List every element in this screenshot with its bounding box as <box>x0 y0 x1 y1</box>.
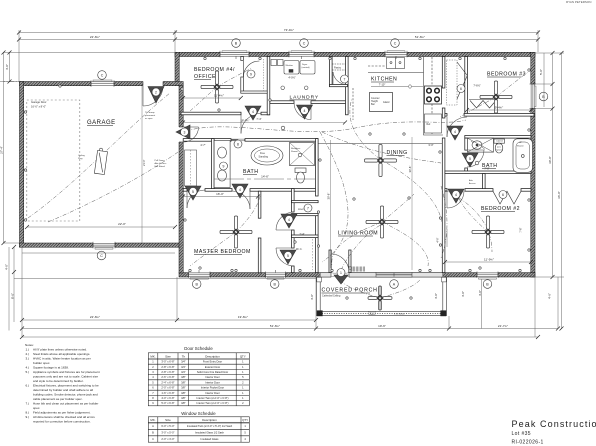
fan master <box>220 216 252 248</box>
marker 7 pantry <box>341 75 349 83</box>
svg-text:1.): 1.) <box>26 348 30 352</box>
laundry washer dryer <box>271 60 315 90</box>
svg-text:Dryer: Dryer <box>302 63 308 66</box>
svg-text:4'-0": 4'-0" <box>5 264 9 270</box>
porch posts <box>317 310 323 316</box>
svg-text:6.): 6.) <box>26 384 30 388</box>
svg-text:BEDROOM #2: BEDROOM #2 <box>481 206 520 212</box>
svg-text:19'-6¼": 19'-6¼" <box>238 315 248 319</box>
fan porch <box>368 286 392 310</box>
notes block <box>25 343 100 424</box>
door 4 swing (office) <box>241 114 261 134</box>
interior dim lines <box>183 196 258 198</box>
wall: bath/hall right <box>316 139 319 196</box>
svg-text:21'-7¾": 21'-7¾" <box>498 324 508 328</box>
svg-text:3.): 3.) <box>26 357 30 361</box>
svg-text:building codes. Smoke detector: building codes. Smoke detector, phone ja… <box>33 393 98 397</box>
svg-text:8.): 8.) <box>26 411 30 415</box>
svg-text:7'-6½": 7'-6½" <box>473 84 480 88</box>
svg-text:4'-0": 4'-0" <box>461 291 465 297</box>
svg-text:1'-6" x 6'-8": 1'-6" x 6'-8" <box>161 391 174 395</box>
marker 5 WIC <box>280 250 296 264</box>
door 7 pantry swing <box>333 72 347 85</box>
svg-text:Washer: Washer <box>286 64 294 67</box>
svg-text:C: C <box>100 254 103 258</box>
marker 5 bath right <box>462 153 478 167</box>
upper cabinet dashed <box>431 57 433 134</box>
door number markers (pennant + circle) <box>148 70 507 284</box>
svg-text:2: 2 <box>242 380 244 384</box>
svg-text:OFFICE: OFFICE <box>194 74 216 80</box>
fire door opening in house left wall (door 3) <box>179 127 184 142</box>
svg-text:6: 6 <box>460 87 462 91</box>
svg-text:4'-7": 4'-7" <box>200 143 205 147</box>
svg-text:4: 4 <box>288 218 290 222</box>
svg-text:73'-9¾": 73'-9¾" <box>284 28 294 32</box>
wall outlets <box>24 57 530 299</box>
svg-text:4'-0": 4'-0" <box>436 237 440 242</box>
svg-text:3/8": 3/8" <box>181 386 186 390</box>
svg-text:Ref.: Ref. <box>427 123 432 126</box>
exterior walls <box>20 52 536 277</box>
garage top window C <box>91 80 114 86</box>
svg-text:Interior Twin (2-2'-6" x 6'-8": Interior Twin (2-2'-6" x 6'-8") <box>197 401 229 405</box>
svg-text:1: 1 <box>242 360 244 364</box>
svg-text:3'-0" x 5'-0": 3'-0" x 5'-0" <box>161 431 174 435</box>
svg-text:7'-4": 7'-4" <box>256 117 261 121</box>
svg-text:Front Entry Door: Front Entry Door <box>203 360 222 364</box>
svg-text:2'-0" x 3'-0": 2'-0" x 3'-0" <box>161 437 174 441</box>
svg-text:11'-4¾": 11'-4¾" <box>214 94 224 98</box>
svg-text:Size: Size <box>165 354 171 358</box>
svg-text:Insulated Twin (2-3'-0" x 5'-0: Insulated Twin (2-3'-0" x 5'-0") 1/2 Sas… <box>187 424 233 428</box>
marker 3 <box>176 125 190 139</box>
svg-text:1: 1 <box>340 271 342 275</box>
svg-text:7: 7 <box>344 77 346 81</box>
svg-text:RI-022026-1: RI-022026-1 <box>512 440 544 446</box>
eave line below house <box>14 277 316 279</box>
dimension lines <box>0 30 564 337</box>
svg-text:5: 5 <box>244 431 246 435</box>
bedroom2 closet bifold <box>493 191 521 204</box>
svg-text:BEDROOM #3: BEDROOM #3 <box>487 72 526 78</box>
svg-text:Plug: Plug <box>78 158 83 160</box>
wall: garage top <box>20 82 184 86</box>
svg-text:determined by builder and shal: determined by builder and shall adhere t… <box>33 388 93 392</box>
svg-text:3'-0" x 6'-8": 3'-0" x 6'-8" <box>161 360 174 364</box>
wall: house left upper <box>175 52 179 85</box>
svg-text:QTY: QTY <box>240 354 246 358</box>
wall: bath right left side <box>465 138 468 150</box>
marker 4 bedroom2 <box>448 189 464 203</box>
svg-text:3/4": 3/4" <box>181 365 186 369</box>
door 5 swing (WIC) <box>276 248 294 266</box>
svg-text:Square footage is at 1638.: Square footage is at 1638. <box>33 366 69 370</box>
svg-text:as spec.: as spec. <box>145 118 154 120</box>
svg-text:C: C <box>303 41 306 45</box>
svg-text:21'-0": 21'-0" <box>142 159 146 166</box>
svg-text:Th: Th <box>182 354 186 358</box>
svg-text:4: 4 <box>239 188 241 192</box>
bottom dim line 2 <box>22 328 558 330</box>
svg-text:Optional: Optional <box>496 149 504 152</box>
left dim lines <box>9 53 11 82</box>
wall: WIC top <box>292 235 319 238</box>
door 4 swing (bedroom3 hall) <box>447 117 467 137</box>
svg-text:builder spec.: builder spec. <box>33 361 50 365</box>
svg-text:7'-4": 7'-4" <box>299 232 304 236</box>
office closet <box>241 57 244 61</box>
svg-text:3/4": 3/4" <box>181 370 186 374</box>
svg-text:1: 1 <box>242 391 244 395</box>
garage bottom window C <box>93 243 115 250</box>
kitchen sink <box>387 58 405 69</box>
front door opening (door 1) <box>331 272 349 277</box>
dimension labels <box>0 28 561 328</box>
wall: house left (garage party / master wing) <box>179 86 183 274</box>
svg-text:4: 4 <box>252 110 254 114</box>
svg-text:Pantry: Pantry <box>334 67 342 70</box>
svg-text:19'-6": 19'-6" <box>378 324 386 328</box>
svg-text:2'-6" x 6'-8": 2'-6" x 6'-8" <box>161 375 174 379</box>
svg-text:Above: Above <box>496 143 503 146</box>
svg-text:6: 6 <box>502 193 504 197</box>
svg-text:7'-10": 7'-10" <box>379 82 386 86</box>
marker 4 hall <box>297 105 313 119</box>
extra wiring arcs <box>217 68 528 232</box>
svg-text:Island: Island <box>383 101 390 104</box>
wall: bath right bottom <box>445 171 531 174</box>
svg-text:7.): 7.) <box>26 402 30 406</box>
svg-text:30'-6": 30'-6" <box>408 166 412 173</box>
svg-text:GARAGE: GARAGE <box>87 120 116 126</box>
fan living <box>366 206 398 238</box>
svg-text:Shower: Shower <box>291 151 298 153</box>
svg-text:B: B <box>152 431 154 435</box>
right dim lines <box>552 53 554 277</box>
svg-text:Description: Description <box>205 354 220 358</box>
svg-text:30'-6": 30'-6" <box>326 193 330 200</box>
room labels <box>87 67 526 316</box>
svg-text:Appliance symbols and fixtures: Appliance symbols and fixtures are for p… <box>33 370 100 374</box>
window letter markers <box>97 39 548 289</box>
svg-text:Lot #35: Lot #35 <box>512 431 531 437</box>
svg-text:Standing: Standing <box>259 156 269 159</box>
svg-text:Insulated Glass: Insulated Glass <box>201 437 220 441</box>
svg-text:reported for correction before: reported for correction before construct… <box>33 420 91 424</box>
svg-text:Linen: Linen <box>298 209 304 211</box>
wall: master top <box>183 189 187 192</box>
marker 4 master <box>281 214 297 228</box>
svg-text:QTY: QTY <box>242 418 248 422</box>
svg-text:4.): 4.) <box>26 366 30 370</box>
svg-text:22'-6¼": 22'-6¼" <box>90 315 100 319</box>
wall: bath right top <box>465 136 531 139</box>
svg-text:1: 1 <box>242 396 244 400</box>
svg-text:22'-6¼": 22'-6¼" <box>90 35 100 39</box>
door 4 swing (master-bath) <box>232 191 250 209</box>
svg-text:5'-0" x 6'-8": 5'-0" x 6'-8" <box>161 401 174 405</box>
svg-text:cable placement as per builder: cable placement as per builder spec. <box>33 397 83 401</box>
svg-text:16'-0": 16'-0" <box>216 192 224 196</box>
svg-text:L.V.L Beam: L.V.L Beam <box>394 314 405 316</box>
svg-text:16'-0" x 8'-0": 16'-0" x 8'-0" <box>31 105 46 109</box>
marker 4 master-bath <box>232 184 248 198</box>
top extension lines <box>18 30 20 82</box>
svg-text:HVAC in attic. Water heater lo: HVAC in attic. Water heater location as … <box>33 357 91 361</box>
closet bifold doors <box>185 57 522 205</box>
svg-text:All 9' plate lines unless othe: All 9' plate lines unless otherwise note… <box>33 348 87 352</box>
svg-text:4: 4 <box>455 193 457 197</box>
svg-text:Insulated Glass 1/2 Sash: Insulated Glass 1/2 Sash <box>195 431 224 435</box>
window B top <box>220 51 249 57</box>
svg-text:placement: placement <box>145 114 155 117</box>
marker 2 <box>148 87 164 104</box>
svg-text:2: 2 <box>242 401 244 405</box>
svg-text:1: 1 <box>242 365 244 369</box>
marker 9 office closet <box>247 70 255 78</box>
fan bedroom3 <box>480 81 512 113</box>
wall: right exterior <box>531 52 535 277</box>
wall: master closet left <box>212 139 215 189</box>
island counter height bar <box>370 93 393 112</box>
svg-text:Tile bump: Tile bump <box>145 112 155 114</box>
door 4 swing (hall/laundry) <box>294 103 311 120</box>
marker 9 master closet <box>220 162 228 170</box>
svg-text:C: C <box>152 437 154 441</box>
svg-text:KITCHEN: KITCHEN <box>371 77 397 83</box>
wall: pantry bottom <box>330 85 348 87</box>
svg-text:Window Schedule: Window Schedule <box>181 411 216 416</box>
interior walls <box>181 57 534 273</box>
svg-text:Bar: Bar <box>371 103 375 106</box>
wall: bedroom3 bottom <box>445 114 447 117</box>
bath mid fixtures <box>214 141 314 188</box>
svg-text:3/8": 3/8" <box>181 375 186 379</box>
wall: closet row / bedroom2 top <box>445 189 447 192</box>
svg-text:36'-0": 36'-0" <box>557 191 561 199</box>
svg-text:6'-0" x 5'-0": 6'-0" x 5'-0" <box>161 424 174 428</box>
Window Schedule table <box>148 411 249 442</box>
svg-text:MK.: MK. <box>150 354 155 358</box>
wall: kitchen/hall divider <box>442 57 445 89</box>
svg-text:4'-0" x 6'-8": 4'-0" x 6'-8" <box>161 396 174 400</box>
svg-text:(on): (on) <box>497 147 501 149</box>
door 4 swing (bedroom2) <box>447 191 464 208</box>
marker 5 master closet <box>185 186 201 200</box>
svg-text:5: 5 <box>192 190 194 194</box>
svg-text:Steel lintels above all applic: Steel lintels above all applicable openi… <box>33 352 90 356</box>
door 5 swing (bath right) <box>467 150 484 167</box>
garage attic stair <box>94 150 107 174</box>
svg-text:Attic Access: Attic Access <box>155 162 168 165</box>
svg-text:4: 4 <box>304 109 306 113</box>
svg-text:6: 6 <box>152 386 154 390</box>
vanity mid <box>214 141 230 188</box>
svg-text:2'-4" x 6'-8": 2'-4" x 6'-8" <box>161 380 174 384</box>
svg-text:3/4": 3/4" <box>181 360 186 364</box>
marker 8 bath pocket <box>234 140 242 148</box>
svg-text:Cathedral Ceiling: Cathedral Ceiling <box>322 295 341 298</box>
master closet <box>185 150 197 186</box>
svg-text:9'-4¾": 9'-4¾" <box>495 106 503 110</box>
wall: garage left <box>20 82 24 248</box>
svg-text:Interior Pocket Door: Interior Pocket Door <box>201 386 224 390</box>
bottom dim line 1 <box>22 319 316 321</box>
svg-text:Ceiling: Ceiling <box>78 155 85 157</box>
svg-text:5: 5 <box>469 157 471 161</box>
fan bedroom2 <box>472 216 504 248</box>
wall: pantry left <box>330 57 333 87</box>
svg-text:Shower: Shower <box>517 146 524 148</box>
svg-text:(vented): (vented) <box>302 66 310 69</box>
svg-text:1: 1 <box>242 386 244 390</box>
wall: closet divider <box>483 174 486 189</box>
svg-text:2: 2 <box>155 90 157 94</box>
svg-text:Notes:: Notes: <box>25 343 34 347</box>
counter edge top <box>368 72 424 74</box>
Door Schedule table <box>148 346 249 406</box>
svg-text:Fiberglass: Fiberglass <box>291 148 300 150</box>
svg-text:7'-6": 7'-6" <box>519 227 523 232</box>
marker 6 hall closet <box>457 85 465 93</box>
svg-text:11'-9¾": 11'-9¾" <box>484 258 494 262</box>
wall: office/laundry divider <box>267 57 270 115</box>
svg-text:BEDROOM #4/: BEDROOM #4/ <box>194 67 235 73</box>
electrical wiring arcs <box>28 87 496 298</box>
marker 1 <box>334 275 348 284</box>
marker 6 bedroom2 closet <box>499 191 507 199</box>
bedroom3 closet bifold <box>469 99 497 101</box>
svg-text:BATH: BATH <box>243 169 258 175</box>
wall: office bottom <box>181 112 241 115</box>
counter edge right <box>424 57 444 136</box>
svg-text:3'-0": 3'-0" <box>428 143 433 147</box>
wall: foyer sides <box>329 250 331 273</box>
svg-text:3: 3 <box>184 130 186 134</box>
window B3 bottom (bedroom2) <box>477 272 498 279</box>
svg-text:4'-0½": 4'-0½" <box>288 76 295 80</box>
tub freestanding <box>251 146 283 165</box>
svg-text:MASTER BEDROOM: MASTER BEDROOM <box>194 249 251 255</box>
svg-text:Attic: Attic <box>469 179 473 182</box>
svg-text:A: A <box>152 424 154 428</box>
wall: main top <box>175 52 535 56</box>
door 3 swing (fire door) <box>184 127 199 142</box>
wall: garage bottom <box>20 243 184 247</box>
svg-text:30'-0": 30'-0" <box>548 156 552 164</box>
svg-text:8: 8 <box>152 396 154 400</box>
door 5 swing (master closet) <box>187 190 205 208</box>
marker 7 linen <box>304 204 312 212</box>
bottom dim line 3 <box>22 336 538 338</box>
svg-text:Access: Access <box>469 182 475 185</box>
porch section wall (lighter) <box>320 273 443 277</box>
svg-text:27'-4": 27'-4" <box>0 146 3 154</box>
svg-text:COVERED PORCH: COVERED PORCH <box>322 288 378 294</box>
pantry shelves <box>332 63 345 65</box>
svg-text:4: 4 <box>244 437 246 441</box>
window B2 bottom (master) <box>266 272 286 279</box>
svg-text:Peak Construction: Peak Construction <box>512 419 596 429</box>
shower <box>290 143 315 166</box>
svg-text:Exposed: Exposed <box>368 312 377 314</box>
svg-text:3/8": 3/8" <box>181 401 186 405</box>
hall closet bifold (near bedroom3) <box>447 60 458 105</box>
wall: bath mid top <box>183 139 231 142</box>
svg-text:Timbers: Timbers <box>368 313 375 316</box>
top segment dim line <box>19 39 538 41</box>
svg-text:5'-0": 5'-0" <box>539 69 543 75</box>
stove cooktop <box>425 86 442 104</box>
svg-text:5: 5 <box>152 380 154 384</box>
svg-text:Interior Door: Interior Door <box>205 375 220 379</box>
title block <box>512 419 596 446</box>
wall: bottom exterior <box>179 273 535 277</box>
svg-text:22'-0": 22'-0" <box>118 222 126 226</box>
svg-text:RYAN PETERSON: RYAN PETERSON <box>566 0 591 4</box>
covered porch structure <box>316 277 446 316</box>
bottom extension lines <box>21 247 23 337</box>
door swings <box>143 72 484 272</box>
window B1 bottom (master) <box>189 272 211 279</box>
wall: master right <box>258 191 261 218</box>
svg-text:purposes only and are not to s: purposes only and are not to scale. Cabi… <box>33 375 98 379</box>
window C top <box>289 51 314 57</box>
svg-text:5.): 5.) <box>26 370 30 374</box>
wall: laundry/kitchen divider <box>346 57 349 115</box>
svg-text:2'-8" x 6'-8": 2'-8" x 6'-8" <box>161 370 174 374</box>
wall: linen closet <box>292 201 319 203</box>
svg-text:Interior Door: Interior Door <box>205 380 220 384</box>
svg-text:4: 4 <box>152 375 154 379</box>
wall: bedroom3 left <box>465 57 468 115</box>
svg-text:7'-0": 7'-0" <box>484 167 489 171</box>
svg-text:7: 7 <box>152 391 154 395</box>
svg-text:Pull Down: Pull Down <box>155 160 166 162</box>
svg-text:LAUNDRY: LAUNDRY <box>290 95 320 101</box>
window C2 top (kitchen) <box>385 51 407 57</box>
svg-text:9: 9 <box>223 164 225 168</box>
bath right fixtures <box>467 138 532 172</box>
svg-text:C: C <box>394 41 397 45</box>
svg-text:2'-8" x 6'-8": 2'-8" x 6'-8" <box>161 365 174 369</box>
svg-text:51'-6¼": 51'-6¼" <box>270 324 280 328</box>
svg-text:4'-0": 4'-0" <box>5 64 9 70</box>
svg-text:Interior Twin (2-2'-0" x 6'-8": Interior Twin (2-2'-0" x 6'-8") <box>197 396 229 400</box>
fridge <box>425 114 442 133</box>
fan dining <box>365 145 397 177</box>
svg-text:Garage Door: Garage Door <box>31 100 47 104</box>
dimension ticks <box>2 31 564 340</box>
garage service door opening (door 2) <box>143 81 163 86</box>
tub right <box>513 139 533 173</box>
svg-text:4'-0": 4'-0" <box>310 294 314 300</box>
door 1 swing (front entry) <box>331 254 349 272</box>
svg-text:1: 1 <box>242 370 244 374</box>
kitchen counters <box>318 57 443 144</box>
svg-text:Hose bib and clean out placeme: Hose bib and clean out placement as per … <box>33 402 98 406</box>
door 8 pocket (bath mid) <box>232 139 245 141</box>
svg-text:Fire Rated: Fire Rated <box>155 165 166 168</box>
garage width dim <box>27 226 175 228</box>
door 4 swing (master) <box>276 212 294 230</box>
svg-text:DINING: DINING <box>387 150 408 156</box>
top overall dim line <box>19 32 538 34</box>
svg-text:9.): 9.) <box>26 415 30 419</box>
svg-text:2.): 2.) <box>26 352 30 356</box>
svg-text:2: 2 <box>152 365 154 369</box>
